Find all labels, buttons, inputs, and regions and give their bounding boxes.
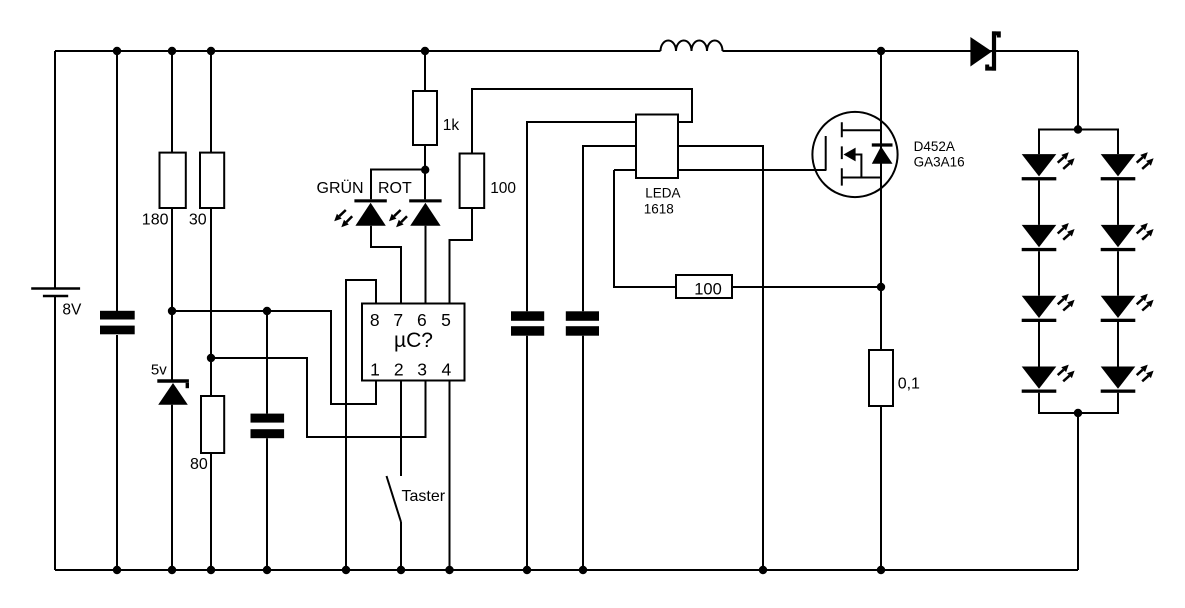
wire zener to bottom rail [171,405,173,570]
node dot array bottom [1074,409,1082,417]
diode D1 schottky bar [992,31,996,70]
node dot 358 R30 [207,354,215,362]
wire cap C1 bottom [116,335,118,570]
svg-text:8: 8 [370,310,380,330]
wire LED column right seg2 [1117,251,1119,296]
LED array D6 [1022,294,1075,322]
svg-text:180: 180 [142,211,169,228]
LED array D2 [1022,152,1075,180]
switch Taster blade [387,476,402,522]
transistor Q1 gate bar [825,136,827,171]
node dot top rail R30 [207,47,215,55]
transistor Q1 drain connect [842,129,881,131]
node dot rail R80 [207,566,215,574]
svg-text:100: 100 [490,180,516,197]
svg-text:1618: 1618 [644,201,674,216]
wire bottom rail [55,569,1078,571]
diode D1 schottky top hook [996,33,999,37]
svg-text:Taster: Taster [402,488,446,505]
wire R80 to bottom rail [210,453,212,570]
IC uC box [362,304,465,381]
diode D1 schottky bottom hook [987,65,992,69]
node dot rail LEDA [759,566,767,574]
wire diode to LED array feed [1077,51,1079,130]
transistor Q1 channel segments [841,122,843,185]
resistor 1k [413,91,437,145]
svg-text:4: 4 [442,360,452,380]
wire R180 to zener [171,208,173,380]
resistor 30 [200,153,224,208]
transistor Q1 substrate arrow [844,148,862,178]
svg-text:0,1: 0,1 [898,376,920,393]
node dot rail zener [168,566,176,574]
wire node 311 to uC pin 1 [172,311,376,404]
wire LED column left seg3 [1038,322,1040,367]
svg-text:2: 2 [394,360,404,380]
node dot rail R01 [877,566,885,574]
svg-text:100: 100 [694,281,722,299]
svg-text:30: 30 [189,211,207,228]
node dot top rail MOSFET [877,47,885,55]
node dot source 287 [877,283,885,291]
LED ROT [389,199,442,227]
wire R30 to R80 [210,208,212,396]
svg-text:6: 6 [417,310,427,330]
node dot LED junction [421,166,429,174]
wire LED column right seg1 [1117,180,1119,225]
wire ROT anode to uC pin 6 [425,226,427,304]
svg-text:8V: 8V [62,302,82,319]
wire switch to bottom rail [400,522,402,570]
wire GRUEN anode to uC pin 7 [371,226,401,304]
wire top rail left [55,50,661,52]
capacitor C3 [511,311,544,335]
wire top rail right [723,50,1079,52]
wire LED array bottom [1039,393,1118,413]
wire R30 top [210,51,212,153]
wire cap C3 bottom [526,336,528,570]
IC LEDA 1618 box [636,115,678,179]
LED array D8 [1022,365,1075,393]
resistor 0,1 [869,350,893,406]
LED array D3 [1101,152,1154,180]
resistor 100a [460,154,485,209]
capacitor C1 [100,311,135,335]
node dot rail C3 [523,566,531,574]
node dot rail switch [397,566,405,574]
svg-text:5: 5 [441,310,451,330]
wire uC pin 2 to switch [400,380,402,476]
node dot top rail R180 [168,47,176,55]
LED GRUEN [334,199,387,227]
node dot rail C2 [263,566,271,574]
wire uC pin 5 to R100a [450,208,473,304]
node dot rail pin8 [342,566,350,574]
LED array D7 [1101,294,1154,322]
wire LED array top [1039,130,1118,155]
wire battery to bottom rail [54,297,56,570]
wire left branch to battery [54,51,56,288]
capacitor C4 [566,311,599,335]
wire LED column right seg3 [1117,322,1119,367]
capacitor C2 [251,414,285,439]
wire R100a top loop to LEDA right [472,89,692,154]
inductor L1 [661,41,723,52]
wire cap C3 top to LEDA left [527,122,636,311]
svg-text:ROT: ROT [378,180,412,197]
resistor 80 [201,396,224,453]
wire R01 to bottom rail [880,406,882,570]
wire GRUEN cathode to node [371,170,425,200]
resistor 100b [676,275,732,298]
wire LED array to bottom rail [1077,413,1079,570]
transistor Q1 body diode [872,145,893,164]
node dot 311 zener [168,307,176,315]
node dot top rail 1k [421,47,429,55]
wire R100b to source node [732,286,881,288]
svg-text:7: 7 [393,310,403,330]
wire gate net behind LEDA [614,169,826,171]
transistor Q1 source connect [842,177,881,179]
battery 8V plate positive [31,287,80,289]
wire LEDA right to bottom rail [678,146,763,570]
wire gate net to R100b [614,170,676,287]
wire cap C4 bottom [582,336,584,570]
wire cap C2 top [266,311,268,414]
node dot array top [1074,125,1082,133]
LED array D5 [1101,223,1154,251]
node dot top rail C1 [113,47,121,55]
resistor 180 [160,153,186,208]
wire cap C1 top [116,51,118,311]
svg-text:1k: 1k [443,117,460,134]
node dot 311 C2 [263,307,271,315]
wire uC pin 8 to bottom rail [346,280,376,570]
wire uC pin 4 to bottom rail [449,380,451,570]
battery 8V plate negative [43,295,68,297]
wire node 358 to uC pin 3 [211,358,426,437]
LED array D4 [1022,223,1075,251]
wire 1k top [424,51,426,91]
svg-text:µC?: µC? [394,329,433,352]
svg-text:80: 80 [190,456,208,473]
svg-text:3: 3 [417,360,427,380]
svg-text:D452A: D452A [914,139,955,154]
wire 1k to ROT cathode [424,145,426,199]
node dot rail C1 [113,566,121,574]
svg-text:5v: 5v [151,361,167,378]
node dot rail C4 [579,566,587,574]
node dot rail pin4 [445,566,453,574]
svg-text:LEDA: LEDA [645,185,680,200]
wire cap C4 top to LEDA left [583,146,636,311]
svg-text:1: 1 [370,360,380,380]
wire MOSFET drain/source vertical [880,51,882,350]
transistor Q1 MOSFET circle [812,112,897,197]
LED array D9 [1101,365,1154,393]
svg-text:GRÜN: GRÜN [317,179,364,197]
diode D1 schottky triangle [970,37,992,67]
zener diode 5v [157,381,189,405]
wire cap C2 bottom [266,438,268,570]
svg-text:GA3A16: GA3A16 [914,155,965,170]
wire LED column left seg1 [1038,180,1040,225]
wire LED column left seg2 [1038,251,1040,296]
wire R180 top [171,51,173,153]
